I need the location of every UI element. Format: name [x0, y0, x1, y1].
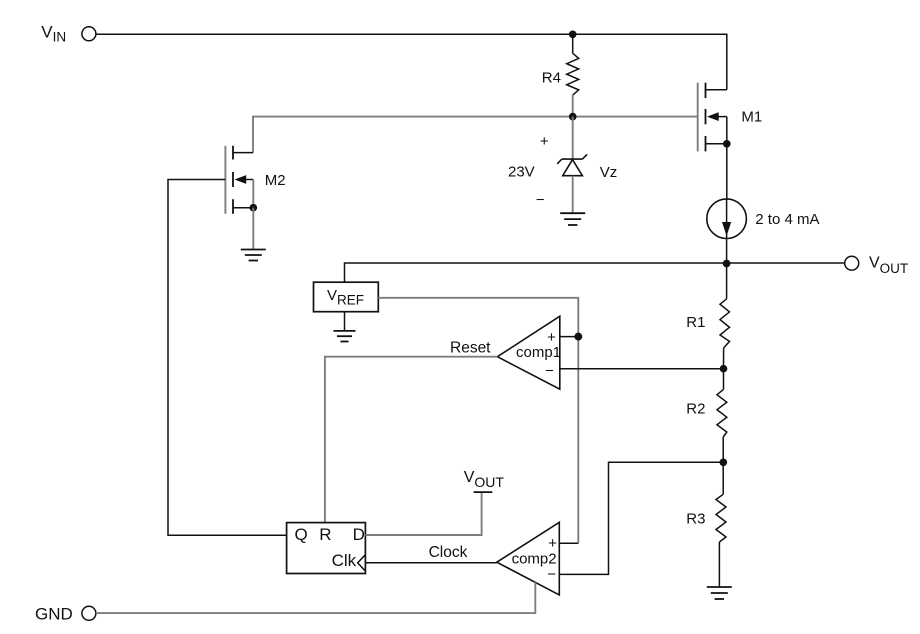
node junction dot M1 source	[723, 140, 731, 148]
svg-text:Clock: Clock	[429, 544, 468, 561]
node GND terminal	[35, 605, 96, 624]
resistor R1	[686, 264, 729, 369]
node junction dot comp1 plus	[574, 333, 582, 341]
svg-text:R: R	[319, 525, 331, 544]
node VOUT terminal	[845, 255, 908, 277]
wire R4 bottom stub (gray)	[572, 95, 574, 117]
wire flipflop D to VOUT tap (gray)	[365, 493, 481, 535]
wire GND bus (gray)	[96, 582, 535, 613]
wire M1 body tie	[726, 117, 728, 144]
block flip-flop	[287, 523, 366, 574]
node junction dot R2 R3	[719, 458, 727, 466]
svg-text:+: +	[540, 133, 549, 150]
current source 2 to 4 mA	[707, 199, 820, 239]
node junction dot M2 source	[249, 204, 257, 212]
node VOUT tap terminal bar	[464, 469, 505, 492]
wire comp2 minus input chain	[559, 462, 723, 574]
block VREF	[314, 282, 379, 312]
wire M2 body tie (gray)	[252, 180, 254, 208]
svg-text:D: D	[353, 525, 365, 544]
svg-text:R4: R4	[542, 69, 561, 86]
wire M1 source to current source	[726, 144, 728, 199]
svg-text:M1: M1	[741, 109, 762, 126]
wire Clock	[365, 562, 496, 564]
svg-text:GND: GND	[35, 605, 73, 624]
svg-text:−: −	[536, 192, 545, 209]
svg-text:23V: 23V	[508, 164, 535, 181]
resistor R2	[686, 369, 727, 463]
wire current source to VOUT node	[726, 239, 728, 264]
node junction dot VOUT	[723, 260, 731, 268]
wire VOUT horizontal line	[345, 263, 845, 282]
wire M2 gate from flipflop Q	[168, 180, 287, 536]
wire VREF output (gray)	[378, 298, 578, 543]
svg-text:+: +	[548, 535, 557, 552]
wire comp1 minus input to R1 R2 junction	[560, 368, 724, 370]
wire comp2 plus input stub	[559, 542, 578, 544]
ground below VREF	[334, 331, 356, 342]
wire VIN top rail	[96, 34, 727, 90]
svg-text:R1: R1	[686, 314, 705, 331]
wire gray gate bus M2 drain to M1 gate	[253, 117, 698, 153]
ground below R3	[707, 587, 732, 599]
svg-text:Vz: Vz	[600, 164, 618, 181]
wire R4 top stub	[572, 34, 574, 53]
op-amp comp1	[497, 316, 561, 389]
wire comp1 plus input stub	[560, 336, 579, 338]
wire zener cathode to ground (gray)	[572, 176, 574, 214]
node junction dot R4 top	[569, 30, 577, 38]
svg-text:M2: M2	[265, 172, 286, 189]
svg-text:−: −	[547, 566, 556, 583]
node junction dot zener top	[569, 113, 577, 121]
svg-text:−: −	[545, 362, 554, 379]
svg-text:2 to 4 mA: 2 to 4 mA	[755, 211, 819, 228]
resistor R3	[686, 462, 726, 587]
op-amp comp2	[497, 522, 560, 595]
resistor R4	[542, 53, 579, 95]
ground below zener	[560, 213, 585, 225]
svg-text:comp2: comp2	[512, 551, 557, 568]
wire zener anode stub (gray)	[572, 117, 574, 160]
node VIN terminal	[41, 22, 96, 44]
svg-text:R2: R2	[686, 401, 705, 418]
node junction dot R1 R2	[720, 365, 728, 373]
wire VREF to ground	[344, 312, 346, 331]
svg-text:Reset: Reset	[450, 340, 491, 357]
svg-text:R3: R3	[686, 511, 705, 528]
zener diode Vz	[557, 154, 617, 181]
svg-text:comp1: comp1	[516, 344, 561, 361]
wire comp1 output Reset (gray)	[325, 357, 498, 523]
transistor M1	[698, 83, 763, 152]
svg-text:Q: Q	[294, 525, 307, 544]
svg-text:Clk: Clk	[332, 551, 357, 570]
transistor M2	[225, 146, 285, 214]
ground below M2	[241, 250, 266, 261]
svg-text:+: +	[547, 329, 556, 346]
wire M2 source to ground (gray)	[252, 208, 254, 250]
